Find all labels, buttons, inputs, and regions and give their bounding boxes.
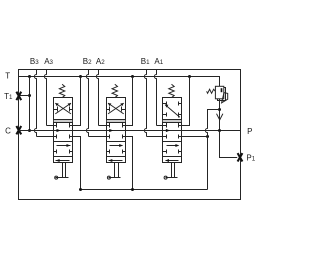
valve closed ports y=151.7 section 1 <box>163 151 167 153</box>
wire work port A3 line with hop at T <box>44 70 46 126</box>
wire work port A1 line with hop at T <box>154 70 156 126</box>
compensator side ports section 2 <box>107 109 110 111</box>
wire A3 turn into valve section 3 <box>47 125 54 127</box>
svg-text:P: P <box>247 127 252 136</box>
wire P1 feed line <box>220 131 238 158</box>
compensator-to-valve bridge section 2 <box>106 120 108 123</box>
junction dot riser section2 on T line <box>131 75 134 78</box>
relief valve offset body <box>218 88 226 101</box>
wire riser T-to-valve section 1 <box>182 77 190 126</box>
wire relief outlet down <box>219 99 221 111</box>
svg-text:C: C <box>5 126 11 135</box>
spring of compensator section 1 <box>169 84 174 98</box>
P-flow arrowhead inside valve section 1 <box>166 129 170 132</box>
junction dot tank section3 <box>79 188 82 191</box>
enclosure frame of valve assembly <box>19 70 241 200</box>
valve closed ports y=151.7 section 2 <box>107 151 110 153</box>
relief valve body <box>216 87 224 99</box>
svg-text:P1: P1 <box>246 154 255 163</box>
pressure compensator box section 1 <box>163 98 182 120</box>
check valve to P gallery <box>219 111 221 131</box>
manual lever actuator section 3 <box>62 163 64 178</box>
valve closed ports y=125.2 section 1 <box>163 125 167 127</box>
valve middle-cell arrow section 1 <box>167 145 179 147</box>
svg-text:A1: A1 <box>154 57 163 66</box>
directional valve box section 1 <box>163 123 182 163</box>
junction dot T-riser section3 <box>79 75 82 78</box>
valve closed ports y=136.2 section 2 <box>107 136 110 138</box>
wire work port B1 line with hops <box>144 70 146 137</box>
valve middle-cell arrow section 3 <box>57 145 71 147</box>
valve closed ports y=136.2 section 1 <box>163 136 167 138</box>
wire A2 turn into valve section 2 <box>99 125 107 127</box>
compensator X-arrows section 3 <box>55 103 71 114</box>
pressure compensator box section 2 <box>107 98 126 120</box>
wire valve section 2 return to tank line <box>126 137 133 190</box>
compensator-to-valve bridge section 3 <box>53 120 55 123</box>
wire B2 turn into valve section 2 <box>89 136 107 138</box>
svg-text:T: T <box>5 71 10 80</box>
relief valve internal arrow <box>221 88 223 92</box>
spring of compensator section 2 <box>112 84 117 98</box>
compensator-to-valve bridge section 1 <box>162 120 164 123</box>
valve middle-cell arrow section 2 <box>110 145 123 147</box>
P-flow arrowhead inside valve section 3 <box>57 129 61 132</box>
valve position divider lines section 2 <box>107 141 126 143</box>
plug X at port C <box>16 126 21 134</box>
wire B1 turn into valve section 1 <box>147 136 163 138</box>
wire left drop connecting T/T1/C <box>29 77 31 131</box>
junction dot check valve on P gallery <box>218 129 221 132</box>
junction dot C on P gallery <box>28 129 31 132</box>
valve bottom-cell arrow section 2 <box>109 160 123 162</box>
directional valve box section 2 <box>107 123 126 163</box>
valve position divider lines section 1 <box>163 141 182 143</box>
valve position divider lines section 3 <box>54 141 73 143</box>
valve closed ports y=151.7 section 3 <box>54 151 57 153</box>
wire riser T-to-valve section 2 <box>126 77 133 126</box>
compensator diagonal arrow section 1 <box>165 105 180 118</box>
svg-text:A2: A2 <box>96 57 105 66</box>
wire riser T-to-valve section 3 <box>73 77 81 126</box>
valve bottom-cell arrow section 3 <box>56 160 70 162</box>
wire valve section 3 return to tank line <box>73 137 81 190</box>
junction dot section 1 return on drain line <box>206 135 209 138</box>
compensator side ports section 3 <box>54 109 58 111</box>
valve bottom-cell arrow section 1 <box>166 160 179 162</box>
relief valve spring <box>207 89 216 93</box>
svg-text:T1: T1 <box>4 92 13 101</box>
wire work port B3 line with hops <box>34 70 36 137</box>
wire P gallery (y=130.8) from C to P <box>19 130 241 132</box>
svg-text:B3: B3 <box>30 57 39 66</box>
svg-text:B1: B1 <box>141 57 150 66</box>
wire relief branch to tank with hop over P <box>205 110 219 190</box>
wire A1 turn into valve section 1 <box>157 125 163 127</box>
junction dot tank section2 <box>131 188 134 191</box>
compensator side ports section 1 <box>163 103 167 105</box>
relief valve drain flag <box>222 93 228 103</box>
svg-text:A3: A3 <box>44 57 53 66</box>
compensator X-arrows section 2 <box>108 103 124 114</box>
wire work port B2 line with hops <box>86 70 88 137</box>
junction dot relief branch <box>218 108 221 111</box>
plug X at port P1 <box>238 153 243 161</box>
wire tank return line (y=189.3) <box>81 189 208 191</box>
wire work port A2 line with hop at T <box>96 70 98 126</box>
junction dot T-drop section3 <box>28 75 31 78</box>
valve closed ports y=125.2 section 2 <box>107 125 110 127</box>
wire valve section 1 return to relief drain line <box>182 136 208 138</box>
wire T gallery (y=76) with drop to relief inlet <box>19 77 220 87</box>
svg-text:B2: B2 <box>83 57 92 66</box>
pressure compensator box section 3 <box>54 98 73 120</box>
directional valve box section 3 <box>54 123 73 163</box>
manual lever actuator section 2 <box>114 163 116 178</box>
manual lever actuator section 1 <box>171 163 173 178</box>
valve closed ports y=136.2 section 3 <box>54 136 57 138</box>
P-flow arrowhead inside valve section 2 <box>109 129 113 132</box>
valve closed ports y=125.2 section 3 <box>54 125 57 127</box>
wire B3 turn into valve section 3 <box>37 136 54 138</box>
wire T1 stub <box>19 95 30 97</box>
plug X at port T1 <box>16 92 21 100</box>
spring of compensator section 3 <box>59 84 64 98</box>
junction dot riser section1 on T line <box>188 75 191 78</box>
junction dot T1 on left drop <box>28 94 31 97</box>
